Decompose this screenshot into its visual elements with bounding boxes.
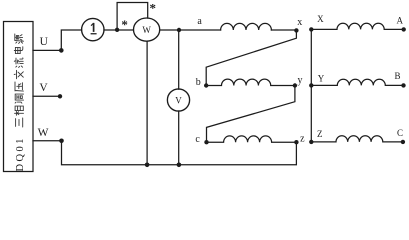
svg-text:*: *	[150, 1, 157, 16]
svg-text:*: *	[121, 17, 128, 32]
svg-text:V: V	[39, 82, 48, 94]
svg-text:U: U	[40, 36, 49, 48]
svg-text:a: a	[197, 16, 202, 27]
svg-text:b: b	[196, 77, 201, 88]
svg-text:X: X	[317, 14, 324, 24]
svg-text:W: W	[142, 25, 151, 35]
svg-text:z: z	[300, 133, 305, 144]
svg-text:V: V	[175, 95, 182, 105]
svg-text:B: B	[394, 71, 400, 81]
svg-text:c: c	[195, 134, 200, 145]
svg-text:Z: Z	[317, 129, 323, 139]
svg-text:Y: Y	[318, 74, 325, 84]
svg-text:A: A	[397, 16, 404, 26]
svg-text:y: y	[298, 75, 303, 86]
svg-text:x: x	[297, 17, 302, 28]
svg-text:C: C	[397, 128, 403, 138]
svg-text:W: W	[38, 127, 49, 139]
svg-text:DQ01: DQ01	[15, 136, 26, 171]
